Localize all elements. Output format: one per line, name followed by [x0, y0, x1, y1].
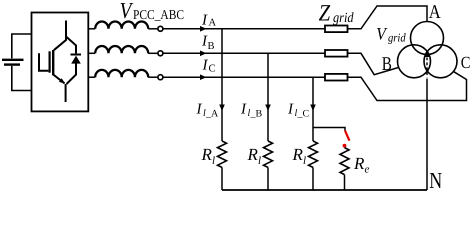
label I_l_C: [287, 101, 310, 119]
wire: [312, 167, 314, 190]
label V_grid: [376, 23, 406, 44]
current arrow I_A: [200, 26, 207, 32]
wire Zgrid A to source terminal A: [348, 6, 428, 29]
svg-text:grid: grid: [333, 11, 354, 26]
svg-text:A: A: [429, 2, 441, 23]
label Z_grid: [319, 0, 355, 26]
wire phase B to Zgrid: [163, 52, 325, 54]
svg-text:I: I: [240, 101, 247, 117]
fault switch blade (red): [345, 131, 349, 141]
svg-text:C: C: [461, 53, 471, 72]
wire Zgrid C to source terminal C: [348, 71, 467, 100]
svg-text:PCC_ABC: PCC_ABC: [133, 7, 184, 22]
wire: [148, 76, 158, 78]
grid source circle top: [411, 22, 444, 55]
label I_l_A: [196, 101, 220, 119]
svg-text:R: R: [201, 145, 213, 164]
resistor R_l C: [309, 141, 318, 167]
svg-text:e: e: [365, 164, 370, 176]
resistor R_l A: [218, 141, 227, 167]
svg-text:grid: grid: [388, 30, 406, 44]
label R_l A: [201, 145, 216, 167]
label I_B: [201, 34, 215, 52]
svg-text:C: C: [209, 64, 216, 75]
fault terminal dot (red): [343, 144, 347, 148]
impedance Zgrid box B: [325, 50, 348, 57]
label I_l_B: [240, 101, 263, 119]
wire fault branch tee: [313, 128, 345, 131]
wire phase C to Zgrid: [163, 76, 325, 78]
wire: [221, 167, 223, 190]
inverter box: [32, 13, 89, 112]
svg-text:Z: Z: [319, 0, 331, 26]
grid source circle right: [424, 45, 457, 78]
load branch C drop: [312, 77, 314, 141]
svg-text:V: V: [120, 0, 134, 23]
neutral wire N: [426, 79, 428, 190]
wire: [148, 28, 158, 30]
svg-text:l: l: [258, 155, 261, 167]
impedance Zgrid box A: [325, 26, 348, 33]
current arrow I_C: [200, 74, 207, 80]
wire: [148, 52, 158, 54]
label R_e: [353, 154, 370, 176]
neutral dashed lead: [426, 58, 428, 78]
wire phase A to Zgrid: [163, 28, 325, 30]
svg-text:R: R: [353, 154, 365, 173]
phase B wire from box: [88, 52, 95, 54]
neutral bottom wire: [222, 189, 427, 191]
diode D1 triangle: [71, 56, 81, 64]
battery DC source: [2, 34, 32, 91]
inductor L_C: [95, 70, 148, 77]
impedance Zgrid box C: [325, 74, 348, 81]
wire: [344, 175, 346, 190]
svg-text:R: R: [292, 145, 304, 164]
resistor R_e: [340, 148, 349, 175]
current arrow I_l_B: [265, 105, 271, 112]
resistor R_l B: [264, 141, 273, 167]
svg-text:B: B: [208, 41, 215, 52]
label I_A: [201, 13, 217, 29]
current arrow I_B: [200, 51, 207, 57]
svg-text:I: I: [287, 101, 294, 117]
svg-text:l: l: [303, 155, 306, 167]
svg-text:I: I: [202, 57, 209, 73]
PCC terminal C: [158, 75, 163, 80]
PCC terminal B: [158, 51, 163, 56]
svg-text:R: R: [247, 145, 259, 164]
phase C wire from box: [88, 76, 95, 78]
svg-text:l: l: [212, 155, 215, 167]
phase A wire from box: [88, 28, 95, 30]
svg-text:V: V: [376, 23, 388, 43]
label R_l B: [247, 145, 262, 167]
svg-text:_C: _C: [297, 108, 310, 119]
wire: [267, 167, 269, 190]
label V_PCC_ABC: [120, 0, 185, 23]
wire Zgrid B to source terminal B: [348, 53, 399, 74]
IGBT emitter arrow: [59, 78, 65, 84]
current arrow I_l_A: [219, 105, 225, 112]
transistor Q1 (IGBT with diode): [39, 21, 81, 103]
svg-text:_A: _A: [205, 108, 219, 119]
source neutral arrow: [425, 51, 430, 57]
svg-text:I: I: [201, 13, 208, 29]
label I_C: [202, 57, 216, 74]
svg-text:A: A: [209, 18, 217, 29]
grid source circle left: [398, 45, 431, 78]
svg-text:I: I: [196, 101, 203, 117]
current arrow I_l_C: [310, 105, 316, 112]
svg-text:_B: _B: [250, 108, 263, 119]
label R_l C: [292, 145, 307, 167]
load branch A drop: [221, 29, 223, 141]
svg-text:N: N: [429, 168, 442, 193]
inductor L_B: [95, 46, 148, 53]
inductor L_A: [95, 21, 148, 28]
svg-text:B: B: [382, 54, 392, 75]
PCC terminal A: [158, 26, 163, 31]
load branch B drop: [267, 53, 269, 141]
